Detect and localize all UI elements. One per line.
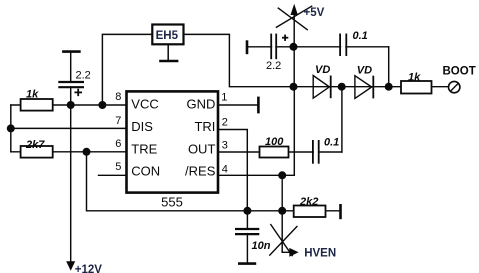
capacitor C 2.2 at +5V (bar + plates) (247, 34, 276, 60)
wire EH5 right to +5V node (184, 34, 294, 86)
svg-text:DIS: DIS (131, 119, 153, 134)
wire OUT row (pin 3) (218, 151, 342, 153)
svg-text:OUT: OUT (188, 141, 216, 156)
svg-text:2.2: 2.2 (76, 69, 91, 81)
svg-text:2.2: 2.2 (266, 60, 281, 72)
svg-text:3: 3 (222, 139, 228, 151)
wire +5V vertical (293, 13, 295, 87)
resistor R 1k left (21, 99, 53, 111)
wire TRI pin 2 down (218, 130, 247, 211)
svg-text:EH5: EH5 (156, 30, 179, 42)
svg-text:VD: VD (315, 64, 330, 76)
node VCC/EH5 (98, 101, 106, 109)
svg-text:5: 5 (115, 161, 121, 173)
node bottom 2k2 (278, 207, 286, 215)
wire GND pin 1 (218, 104, 257, 106)
svg-text:TRE: TRE (131, 141, 157, 156)
node DIS/left rail (7, 124, 15, 132)
svg-text:1k: 1k (26, 89, 39, 101)
wire /RES row (pin 4) (218, 87, 294, 176)
wire OUT up to diode node (341, 87, 343, 152)
svg-text:2k2: 2k2 (299, 196, 318, 208)
ground bar under EH5 (159, 44, 178, 61)
svg-text:VD: VD (357, 65, 372, 77)
node between diodes (338, 83, 346, 91)
diode VD1 (313, 76, 331, 99)
terminal circle BOOT (449, 81, 460, 92)
arrow +5V (291, 4, 298, 15)
svg-text:1k: 1k (408, 71, 421, 83)
svg-text:8: 8 (115, 91, 121, 103)
svg-text:VCC: VCC (131, 97, 158, 112)
capacitor C 0.1 middle (313, 140, 319, 164)
svg-text:+5V: +5V (304, 7, 325, 19)
plus sign +5V cap (282, 35, 288, 41)
wire TRE down to bottom rail (87, 152, 340, 211)
wire +5V cap row (247, 46, 389, 48)
svg-text:2: 2 (222, 117, 228, 129)
wire +12V rail (70, 52, 72, 261)
node TRE (83, 148, 91, 156)
wire top 0.1 cap to diode node (388, 47, 390, 87)
ground bar pin1 GND (257, 97, 260, 114)
IC U1 555 box (127, 91, 219, 192)
node diode anode (290, 83, 298, 91)
resistor R 1k right (401, 81, 432, 94)
node diode2 cathode (385, 83, 393, 91)
node +5V cap (290, 43, 298, 51)
svg-text:555: 555 (161, 195, 183, 210)
svg-text:2k7: 2k7 (25, 139, 45, 151)
resistor R 2k2 (294, 206, 326, 218)
diode VD2 (355, 76, 373, 99)
wire diode row to BOOT (294, 86, 449, 88)
svg-text:+12V: +12V (75, 264, 103, 273)
capacitor C 0.1 top (340, 34, 346, 57)
capacitor C 10n (235, 229, 259, 264)
wire HVEN drop (282, 211, 289, 253)
resistor R 2k7 (21, 146, 53, 158)
wire TRE row (pin 6) (11, 151, 127, 153)
node VCC/cap12 (67, 101, 75, 109)
resistor R 100 (260, 147, 289, 158)
svg-text:/RES: /RES (185, 164, 216, 179)
capacitor C 2.2 left (terminal bar, plates) (58, 52, 84, 88)
svg-text:0.1: 0.1 (353, 30, 368, 42)
node /RES (278, 171, 286, 179)
wire DIS row (pin 7) (11, 127, 127, 129)
svg-text:6: 6 (115, 138, 121, 150)
svg-text:0.1: 0.1 (324, 137, 339, 149)
wire VCC row (pin 8) (11, 104, 127, 106)
svg-text:10n: 10n (252, 240, 271, 252)
svg-text:7: 7 (115, 115, 121, 127)
terminal bar right of 2k2 (339, 204, 342, 219)
wire 10n drop (246, 211, 248, 263)
wire CON stub (pin 5) (99, 174, 127, 176)
svg-text:HVEN: HVEN (304, 248, 336, 260)
svg-text:CON: CON (131, 164, 160, 179)
svg-text:100: 100 (265, 136, 284, 148)
svg-text:1: 1 (221, 92, 227, 104)
svg-text:4: 4 (222, 163, 228, 175)
plus sign left cap (75, 89, 83, 96)
arrow HVEN (289, 248, 298, 257)
arrow +12V (66, 261, 75, 271)
svg-text:BOOT: BOOT (443, 66, 476, 78)
box EH5 (152, 25, 183, 45)
wire EH5 left to VCC node (102, 34, 152, 105)
cross X over +5V (276, 6, 313, 28)
svg-text:TRI: TRI (194, 119, 215, 134)
node bottom TRI (243, 207, 251, 215)
svg-text:GND: GND (187, 97, 216, 112)
cross X over HVEN (269, 226, 297, 256)
wire /RES dot drop (281, 175, 283, 211)
wire left rail (10, 105, 12, 152)
